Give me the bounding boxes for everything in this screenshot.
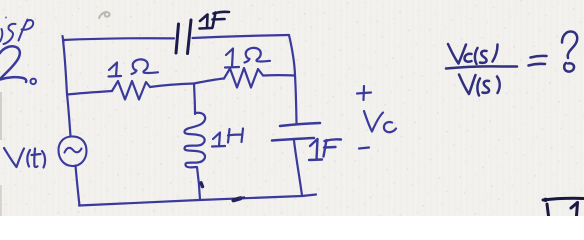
wire bottom — [79, 195, 316, 206]
capacitor C1 1F left plate — [176, 24, 179, 53]
value label 1ohm of R2 — [225, 48, 270, 68]
wire left vertical upper — [63, 36, 71, 137]
value label 1H of L1 — [212, 129, 243, 147]
capacitor C2 1F bottom plate — [272, 138, 314, 141]
capacitor C2 1F top plate — [280, 123, 320, 126]
wire right vertical upper — [289, 35, 297, 124]
value label 1F of C2 — [309, 139, 341, 160]
wire right vertical lower — [294, 141, 302, 196]
annotation fraction bar — [446, 66, 517, 68]
value label 1F of C1 — [200, 12, 230, 29]
current arrow on bottom wire — [234, 198, 245, 201]
capacitor C1 1F right plate — [188, 20, 192, 54]
value label 1ohm of R1 — [109, 59, 159, 76]
current arrow on inductor branch — [201, 183, 203, 187]
page edge shadow left — [0, 92, 2, 216]
label minus of Vc — [359, 148, 369, 149]
wire top right segment — [193, 35, 290, 38]
annotation SP — [0, 17, 33, 45]
wire middle horizontal right of junction — [194, 79, 224, 84]
annotation equals sign — [529, 56, 547, 66]
next problem label fragment 1 — [571, 203, 578, 217]
wire left vertical lower — [76, 166, 80, 206]
wire middle horizontal center — [150, 84, 194, 88]
resistor R2 1ohm — [224, 68, 263, 88]
label Vc — [364, 111, 396, 132]
wire inductor branch lower — [197, 167, 200, 200]
annotation transfer function Vc(s) numerator — [448, 44, 498, 64]
pencil smudge — [99, 12, 110, 18]
wire middle horizontal right segment — [263, 74, 295, 77]
wire inductor branch upper — [194, 84, 195, 114]
label V(t) of source — [4, 148, 45, 168]
annotation question mark — [562, 32, 577, 72]
annotation problem number 2 — [0, 46, 36, 84]
annotation transfer function V(s) denominator — [459, 75, 500, 96]
wire top left segment — [63, 38, 174, 40]
label + of Vc — [357, 86, 371, 100]
voltage source V(t) — [59, 136, 87, 166]
resistor R1 1ohm — [112, 81, 150, 100]
next problem wire fragment bottom right — [543, 198, 584, 216]
inductor L1 1H — [184, 113, 205, 168]
wire middle horizontal left — [67, 91, 112, 95]
